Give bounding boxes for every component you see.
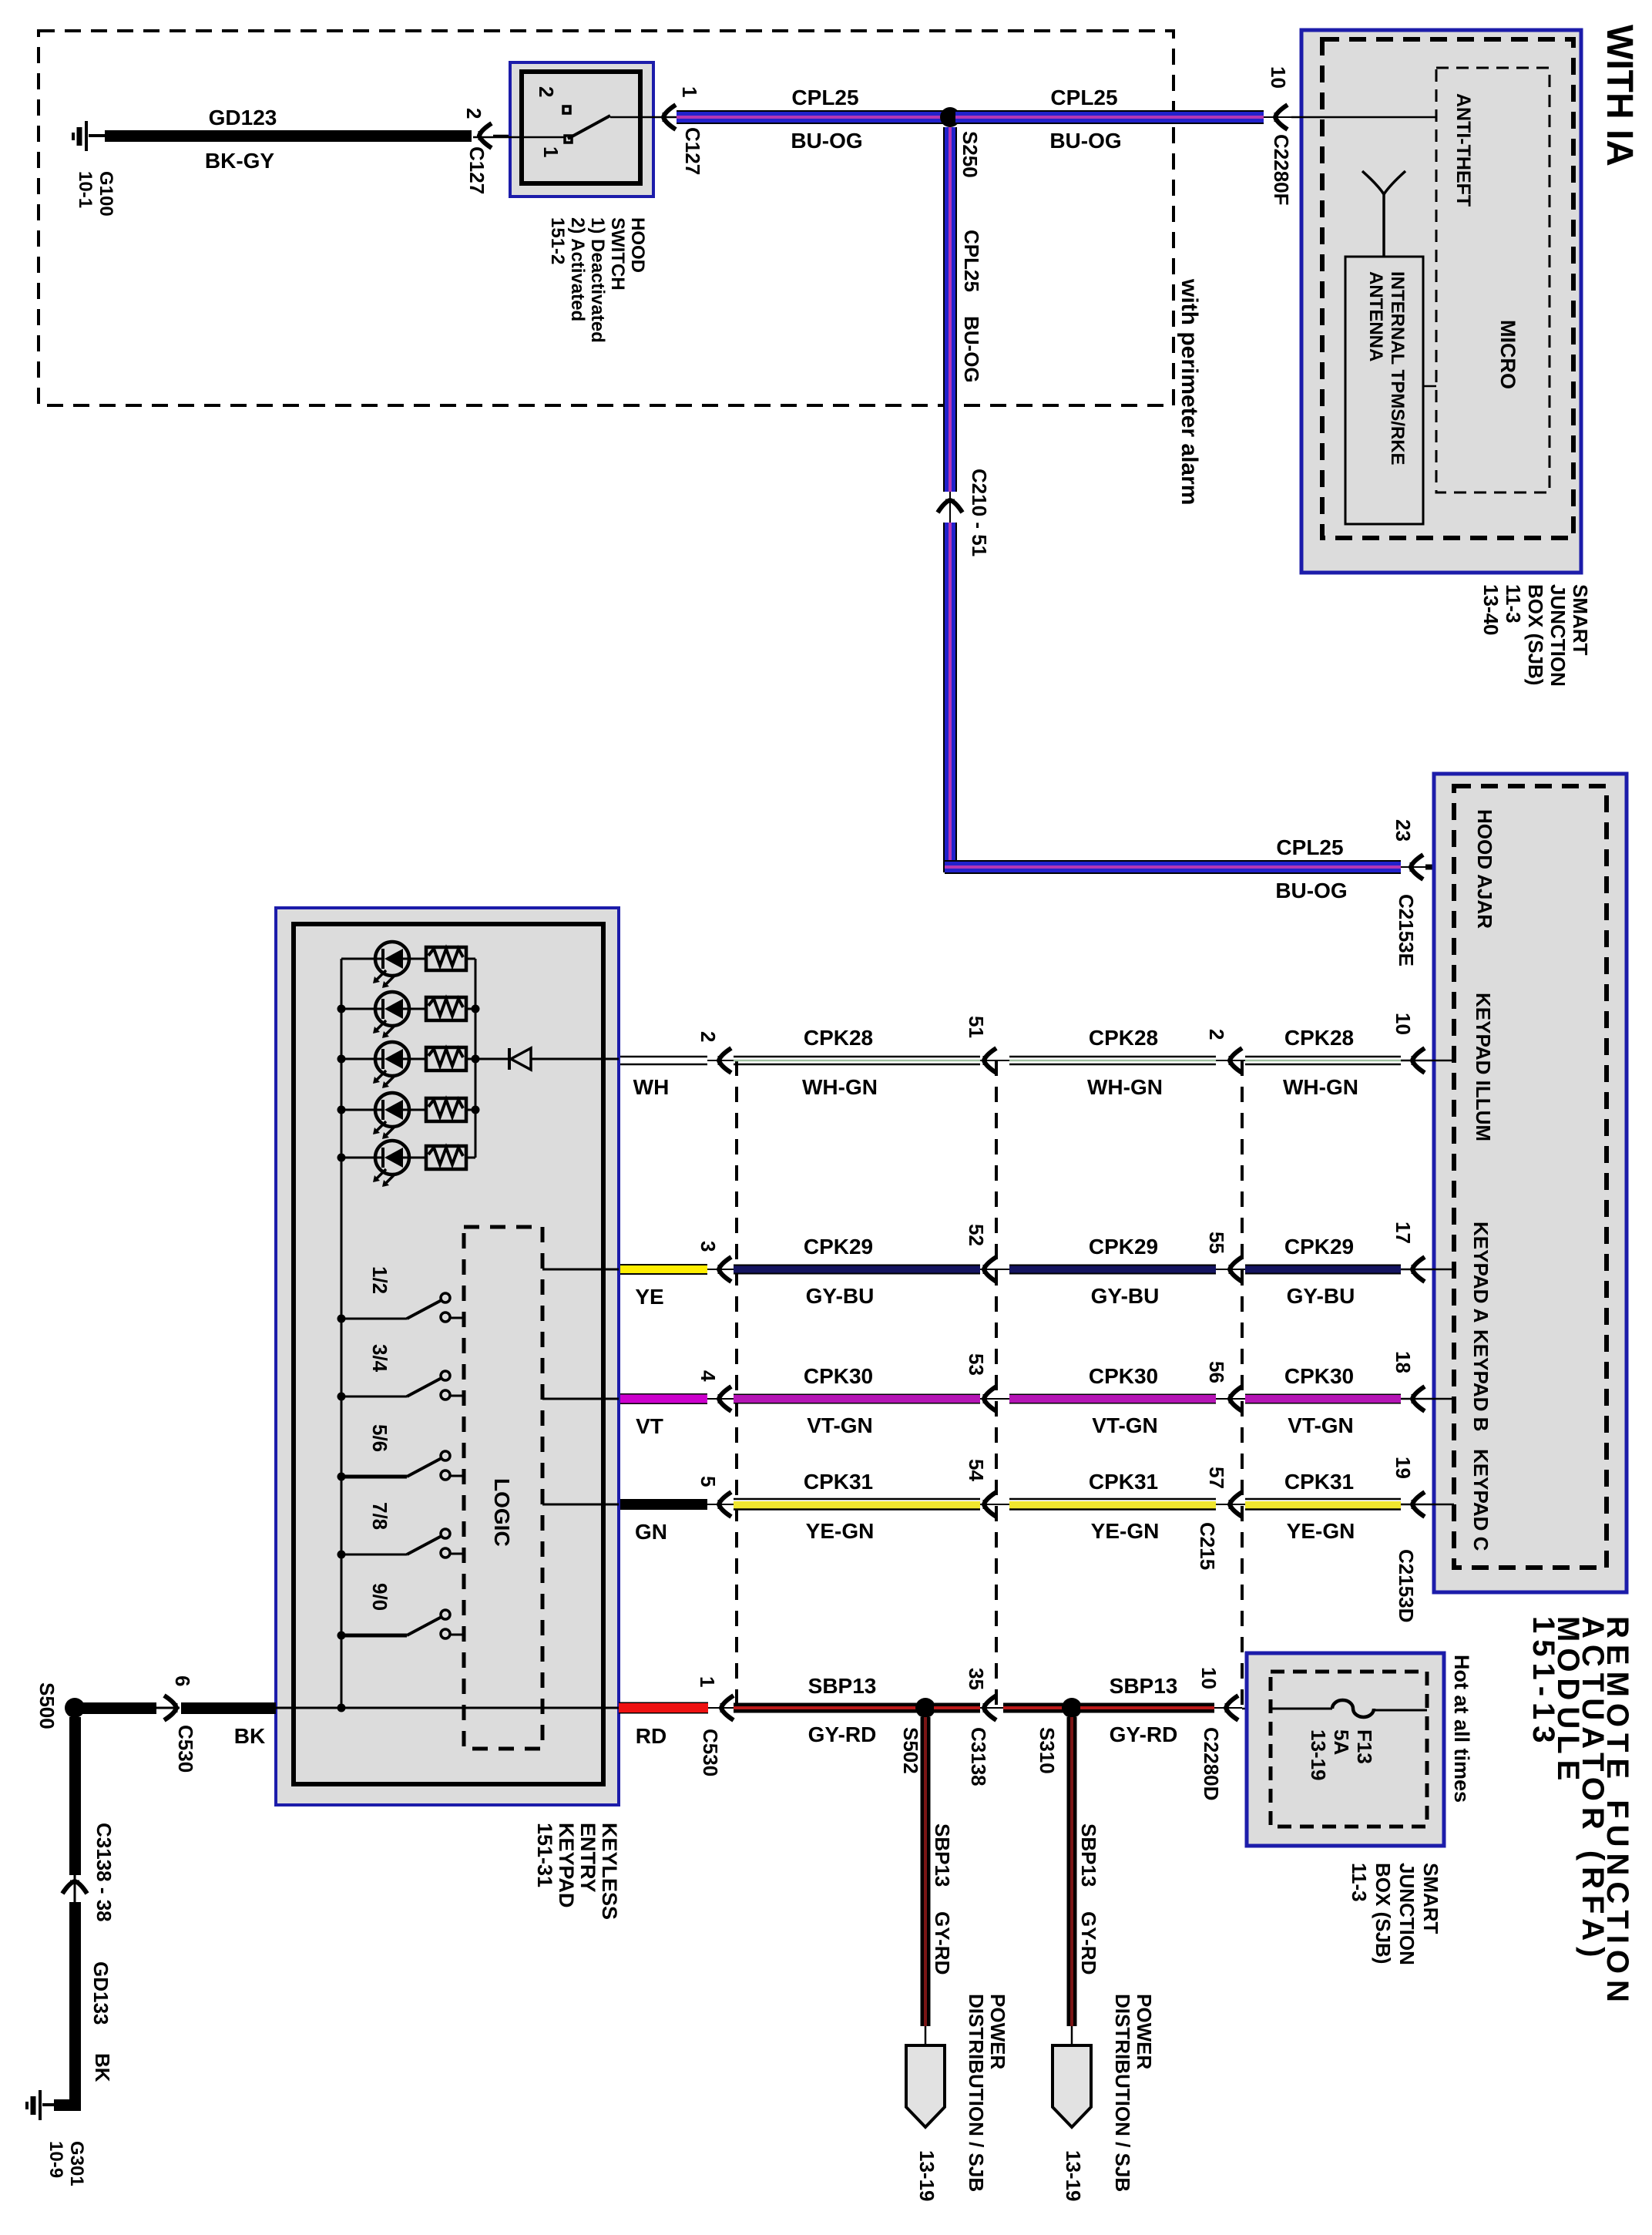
svg-text:GY-RD: GY-RD <box>808 1722 877 1746</box>
svg-text:C3138 - 38: C3138 - 38 <box>92 1823 116 1922</box>
svg-text:54: 54 <box>965 1459 988 1481</box>
wire GD133 BK <box>69 1902 81 2110</box>
svg-text:VT: VT <box>636 1414 663 1438</box>
svg-text:CPK29: CPK29 <box>804 1235 873 1259</box>
svg-text:2) Activated: 2) Activated <box>567 217 588 321</box>
off-page connector POWER DISTRIBUTION / SJB <box>906 2045 945 2127</box>
svg-text:Hot at all times: Hot at all times <box>1450 1655 1473 1803</box>
svg-text:151-31: 151-31 <box>533 1823 556 1887</box>
svg-text:5: 5 <box>697 1476 720 1487</box>
svg-text:BU-OG: BU-OG <box>1049 129 1121 153</box>
svg-text:VT-GN: VT-GN <box>1288 1413 1354 1437</box>
tpms link line <box>1423 385 1436 388</box>
dashed outline: with perimeter alarm region <box>39 31 1174 405</box>
svg-text:ENTRY: ENTRY <box>576 1823 599 1893</box>
svg-text:17: 17 <box>1392 1222 1415 1244</box>
wire WH stub from keypad <box>619 1057 707 1064</box>
svg-text:POWER: POWER <box>1133 1994 1156 2069</box>
connector plane C215/C2153 <box>1241 1060 1244 1708</box>
svg-text:4: 4 <box>697 1370 720 1382</box>
off-page connector POWER DISTRIBUTION / SJB <box>1053 2045 1091 2127</box>
svg-text:LOGIC: LOGIC <box>490 1478 514 1547</box>
svg-text:SBP13: SBP13 <box>931 1823 954 1887</box>
svg-text:HOOD AJAR: HOOD AJAR <box>1473 809 1496 929</box>
LED D2 with resistor R2 <box>341 992 475 1038</box>
wire SBP13 GY-RD segment 2 <box>1003 1703 1063 1713</box>
svg-text:C3138: C3138 <box>967 1727 990 1786</box>
connector C530 pin 4 (CPK30) <box>719 1386 731 1411</box>
connector pin 51 (CPK28) <box>984 1048 996 1073</box>
keypad internal output lines to logic <box>542 1269 619 1271</box>
LED D1 with resistor R1 <box>341 942 475 988</box>
LED right bus <box>475 959 477 1158</box>
LED D3 with resistor R3 <box>341 1042 475 1088</box>
svg-text:KEYLESS: KEYLESS <box>598 1823 621 1920</box>
svg-text:1: 1 <box>678 86 701 97</box>
svg-text:1) Deactivated: 1) Deactivated <box>587 217 608 343</box>
svg-text:GD133: GD133 <box>89 1961 112 2025</box>
svg-text:KEYPAD C: KEYPAD C <box>1469 1449 1493 1551</box>
keypad switch 3/4 <box>341 1371 464 1400</box>
junction on LED left bus <box>337 1154 346 1162</box>
svg-text:GY-BU: GY-BU <box>1091 1284 1160 1308</box>
svg-text:YE-GN: YE-GN <box>1091 1519 1160 1543</box>
svg-text:6: 6 <box>171 1675 194 1686</box>
svg-text:10: 10 <box>1392 1013 1415 1035</box>
svg-text:CPK28: CPK28 <box>1284 1026 1354 1050</box>
keypad switch 1/2 <box>341 1293 464 1322</box>
svg-text:13-19: 13-19 <box>1307 1729 1330 1781</box>
svg-text:VT-GN: VT-GN <box>807 1413 873 1437</box>
micro dashed box <box>1436 68 1550 492</box>
connector C3138 pin 35 <box>984 1696 996 1720</box>
svg-text:BOX (SJB): BOX (SJB) <box>1372 1863 1395 1964</box>
svg-text:BK: BK <box>234 1724 265 1748</box>
wire CPK30 VT-GN segment 1 <box>734 1394 980 1404</box>
svg-text:53: 53 <box>965 1353 988 1376</box>
connector pin 54 (CPK31) <box>984 1492 996 1517</box>
hood switch box <box>510 62 653 197</box>
wire CPK30 VT-GN segment 2 <box>1009 1394 1216 1404</box>
wire SBP13 GY-RD segment 3 <box>1080 1703 1214 1713</box>
svg-text:CPK30: CPK30 <box>1284 1364 1354 1388</box>
svg-text:23: 23 <box>1392 819 1415 842</box>
svg-text:151-2: 151-2 <box>547 217 568 264</box>
svg-text:GN: GN <box>635 1520 667 1544</box>
svg-text:CPL25: CPL25 <box>791 86 858 109</box>
wire CPK29 GY-BU segment 3 <box>1245 1265 1401 1275</box>
svg-text:13-40: 13-40 <box>1479 584 1503 636</box>
connector C530 pin 1 <box>721 1696 734 1720</box>
svg-text:with perimeter alarm: with perimeter alarm <box>1177 278 1202 505</box>
svg-text:18: 18 <box>1392 1351 1415 1373</box>
wire CPK29 GY-BU segment 2 <box>1009 1265 1216 1275</box>
connector C3138 - 38 <box>62 1881 87 1894</box>
LED D5 with resistor R5 <box>341 1141 475 1187</box>
svg-text:JUNCTION: JUNCTION <box>1546 584 1570 687</box>
connector plane C530 <box>735 1060 738 1708</box>
connector C2280D pin 10 <box>1226 1696 1238 1720</box>
svg-text:G100: G100 <box>96 171 116 217</box>
junction on LED right bus <box>472 1106 480 1114</box>
wire VT stub from keypad <box>619 1393 707 1404</box>
svg-text:GY-RD: GY-RD <box>1077 1911 1100 1975</box>
svg-text:VT-GN: VT-GN <box>1092 1413 1158 1437</box>
connector C2280F pin 10 <box>1275 105 1288 129</box>
wire SBP13 GY-RD drop from S502 <box>921 1717 931 2026</box>
wire CPK28 WH-GN segment 3 <box>1245 1057 1401 1064</box>
svg-text:DISTRIBUTION / SJB: DISTRIBUTION / SJB <box>1111 1994 1134 2192</box>
svg-text:2: 2 <box>1205 1029 1228 1040</box>
junction switch bus <box>337 1473 346 1481</box>
fuse F13 5A <box>1271 1700 1427 1717</box>
connector C530 pin 6 <box>164 1696 176 1720</box>
svg-text:10: 10 <box>1267 66 1290 89</box>
svg-text:F13: F13 <box>1353 1729 1376 1764</box>
svg-text:10: 10 <box>1197 1667 1221 1689</box>
connector C210 - 51 <box>938 500 962 513</box>
svg-text:BK: BK <box>91 2053 114 2082</box>
connector pin 55 (CPK29) <box>1230 1257 1242 1282</box>
svg-text:CPK31: CPK31 <box>1089 1470 1158 1494</box>
svg-text:7/8: 7/8 <box>368 1502 391 1530</box>
svg-text:CPK28: CPK28 <box>804 1026 873 1050</box>
svg-text:10-9: 10-9 <box>45 2141 66 2178</box>
svg-text:3: 3 <box>697 1241 720 1252</box>
svg-text:56: 56 <box>1205 1361 1228 1383</box>
svg-text:1/2: 1/2 <box>368 1266 391 1294</box>
svg-text:C2153E: C2153E <box>1395 894 1418 966</box>
wire CPL25 lower horizontal to RFA <box>945 860 1401 874</box>
svg-text:GY-RD: GY-RD <box>931 1911 954 1975</box>
svg-text:13-19: 13-19 <box>1062 2150 1085 2202</box>
junction on LED right bus <box>472 1055 480 1064</box>
svg-text:2: 2 <box>535 86 558 97</box>
wire CPL25 BU-OG segment 1 <box>677 110 945 124</box>
ground G301 <box>27 2090 81 2120</box>
svg-text:GY-RD: GY-RD <box>1110 1722 1178 1746</box>
svg-text:WITH IA: WITH IA <box>1599 25 1640 166</box>
svg-text:11-3: 11-3 <box>1502 584 1525 623</box>
junction on LED left bus <box>337 1005 346 1013</box>
keypad ground line <box>276 1707 619 1709</box>
ground G100 <box>73 121 108 151</box>
svg-text:C210 - 51: C210 - 51 <box>968 469 991 556</box>
wire CPL25 vertical from S250 <box>943 127 957 492</box>
svg-text:CPK28: CPK28 <box>1089 1026 1158 1050</box>
RFA pins 10/17/18/19 stubs and arrows <box>1401 1060 1454 1062</box>
svg-text:BU-OG: BU-OG <box>791 129 862 153</box>
diode D6 (illum output) <box>475 1048 619 1070</box>
svg-text:CPK30: CPK30 <box>1089 1364 1158 1388</box>
svg-text:SBP13: SBP13 <box>1110 1674 1178 1698</box>
splice S502 <box>915 1698 935 1718</box>
connector pin 53 (CPK30) <box>984 1386 996 1411</box>
wire BK vertical from S500 <box>69 1717 81 1875</box>
svg-text:WH-GN: WH-GN <box>1087 1075 1163 1099</box>
LED D4 with resistor R4 <box>341 1093 475 1139</box>
wire GD123 BK-GY <box>105 130 472 142</box>
wire CPK31 YE-GN segment 1 <box>734 1499 980 1510</box>
svg-text:57: 57 <box>1205 1467 1228 1489</box>
svg-text:C2280F: C2280F <box>1270 134 1293 206</box>
svg-text:ANTI-THEFT: ANTI-THEFT <box>1452 93 1474 207</box>
wire CPK28 WH-GN segment 1 <box>734 1057 980 1064</box>
svg-text:CPL25: CPL25 <box>960 230 983 292</box>
junction on LED right bus <box>472 1005 480 1013</box>
remote function actuator (RFA) module box <box>1434 774 1627 1592</box>
svg-text:C127: C127 <box>465 146 489 194</box>
svg-text:1: 1 <box>539 146 562 157</box>
svg-text:SBP13: SBP13 <box>1077 1823 1100 1887</box>
connector pin 52 (CPK29) <box>984 1257 996 1282</box>
svg-text:GY-BU: GY-BU <box>806 1284 875 1308</box>
svg-text:CPK29: CPK29 <box>1284 1235 1354 1259</box>
connector plane C3138 <box>995 1060 998 1708</box>
svg-text:KEYPAD: KEYPAD <box>555 1823 578 1908</box>
junction switch bus <box>337 1632 346 1640</box>
smart junction box (SJB) bottom with fuse F13 <box>1247 1653 1444 1846</box>
svg-text:S500: S500 <box>35 1682 59 1729</box>
junction switch bus <box>337 1315 346 1323</box>
keypad switch 5/6 <box>341 1451 464 1480</box>
connector C127 pin 1 <box>663 105 676 129</box>
wire SBP13 GY-RD drop from S310 <box>1067 1717 1077 2026</box>
svg-text:C530: C530 <box>699 1729 722 1776</box>
connector pin 56 (CPK30) <box>1230 1386 1242 1411</box>
svg-text:9/0: 9/0 <box>368 1583 391 1611</box>
svg-text:POWER: POWER <box>986 1994 1009 2069</box>
svg-text:ANTENNA: ANTENNA <box>1365 271 1386 361</box>
svg-text:INTERNAL TPMS/RKE: INTERNAL TPMS/RKE <box>1387 271 1408 465</box>
svg-text:RD: RD <box>636 1724 667 1748</box>
svg-text:CPK30: CPK30 <box>804 1364 873 1388</box>
svg-text:C2280D: C2280D <box>1200 1727 1223 1800</box>
svg-text:WH-GN: WH-GN <box>1283 1075 1358 1099</box>
svg-text:2: 2 <box>462 108 485 119</box>
svg-text:SWITCH: SWITCH <box>607 217 628 291</box>
connector C530 pin 3 (CPK29) <box>719 1257 731 1282</box>
svg-text:MICRO: MICRO <box>1496 320 1519 389</box>
svg-text:WH-GN: WH-GN <box>802 1075 878 1099</box>
svg-text:C530: C530 <box>174 1725 197 1773</box>
svg-text:BK-GY: BK-GY <box>205 149 275 173</box>
svg-text:DISTRIBUTION / SJB: DISTRIBUTION / SJB <box>965 1994 988 2192</box>
hood switch contacts and blade <box>473 106 678 143</box>
connector C530 pin 2 (CPK28) <box>719 1048 731 1073</box>
svg-text:1: 1 <box>696 1676 719 1687</box>
svg-text:BOX (SJB): BOX (SJB) <box>1524 584 1547 685</box>
wire CPK30 VT-GN segment 3 <box>1245 1394 1401 1404</box>
svg-text:C127: C127 <box>681 127 704 175</box>
splice S250 <box>940 107 960 127</box>
svg-text:19: 19 <box>1392 1457 1415 1479</box>
LED left bus <box>341 959 343 1708</box>
connector C127 pin 2 <box>479 123 492 148</box>
svg-text:35: 35 <box>965 1668 988 1690</box>
connector C530 pin 5 (CPK31) <box>719 1492 731 1517</box>
svg-text:S502: S502 <box>899 1727 922 1774</box>
svg-text:S250: S250 <box>959 131 982 178</box>
wire SBP13 GY-RD segment 1 <box>734 1703 917 1713</box>
svg-text:5/6: 5/6 <box>368 1424 391 1452</box>
svg-text:G301: G301 <box>66 2141 87 2186</box>
svg-text:S310: S310 <box>1036 1727 1059 1774</box>
svg-text:11-3: 11-3 <box>1348 1863 1371 1902</box>
keypad switch 7/8 <box>341 1529 464 1558</box>
svg-text:SMART: SMART <box>1569 584 1592 656</box>
svg-text:CPK31: CPK31 <box>1284 1470 1354 1494</box>
svg-text:GD123: GD123 <box>209 106 277 129</box>
svg-text:YE-GN: YE-GN <box>1287 1519 1355 1543</box>
svg-text:KEYPAD ILLUM: KEYPAD ILLUM <box>1472 993 1495 1141</box>
wire BK from S500 to keypad <box>79 1702 156 1714</box>
svg-text:10-1: 10-1 <box>75 171 96 208</box>
wire CPK31 YE-GN segment 3 <box>1245 1499 1401 1510</box>
wire CPK29 GY-BU segment 1 <box>734 1265 980 1275</box>
svg-text:BU-OG: BU-OG <box>1275 879 1347 902</box>
svg-text:CPK29: CPK29 <box>1089 1235 1158 1259</box>
keypad switch 9/0 <box>341 1610 464 1638</box>
svg-text:SMART: SMART <box>1419 1863 1442 1934</box>
svg-text:55: 55 <box>1205 1232 1228 1254</box>
svg-text:CPL25: CPL25 <box>1276 835 1343 859</box>
wire CPK31 YE-GN segment 2 <box>1009 1499 1216 1510</box>
svg-text:51: 51 <box>965 1016 988 1038</box>
svg-text:52: 52 <box>965 1224 988 1246</box>
svg-text:JUNCTION: JUNCTION <box>1395 1863 1419 1965</box>
svg-text:HOOD: HOOD <box>627 217 648 273</box>
connector C2153E pin 23 <box>1411 855 1423 879</box>
LOGIC dashed box <box>464 1227 542 1749</box>
svg-text:3/4: 3/4 <box>368 1344 391 1373</box>
svg-text:151-13: 151-13 <box>1526 1616 1560 1749</box>
svg-text:SBP13: SBP13 <box>808 1674 877 1698</box>
svg-text:KEYPAD B: KEYPAD B <box>1469 1329 1493 1431</box>
wire CPL25 BU-OG segment 2 <box>955 110 1264 124</box>
junction on LED left bus <box>337 1055 346 1064</box>
wire GN stub from keypad <box>619 1499 707 1510</box>
svg-text:YE-GN: YE-GN <box>806 1519 875 1543</box>
svg-text:C2153D: C2153D <box>1395 1549 1418 1622</box>
svg-text:5A: 5A <box>1330 1729 1353 1755</box>
svg-text:GY-BU: GY-BU <box>1287 1284 1355 1308</box>
wire RD stub from keypad <box>619 1702 708 1714</box>
svg-text:2: 2 <box>697 1031 720 1042</box>
keyless entry keypad box <box>276 908 619 1805</box>
svg-text:BU-OG: BU-OG <box>960 316 983 383</box>
junction on LED left bus <box>337 1106 346 1114</box>
internal TPMS/RKE antenna box <box>1345 257 1423 524</box>
wire CPK28 WH-GN segment 2 <box>1009 1057 1216 1064</box>
wire YE stub from keypad <box>619 1264 707 1275</box>
svg-text:CPK31: CPK31 <box>804 1470 873 1494</box>
svg-text:13-19: 13-19 <box>915 2150 938 2202</box>
svg-text:CPL25: CPL25 <box>1050 86 1117 109</box>
junction switch bus <box>337 1551 346 1559</box>
connector pin 2 (CPK28 C2153) <box>1230 1048 1242 1073</box>
antenna symbol <box>1362 171 1405 257</box>
svg-text:WH: WH <box>633 1075 670 1099</box>
splice S500 <box>65 1698 85 1718</box>
smart junction box (SJB) top <box>1301 30 1581 573</box>
svg-text:YE: YE <box>635 1285 663 1309</box>
junction switch bus <box>337 1393 346 1401</box>
svg-text:C215: C215 <box>1196 1522 1219 1570</box>
connector C215 pin 57 (CPK31) <box>1230 1492 1242 1517</box>
svg-text:KEYPAD A: KEYPAD A <box>1469 1222 1493 1323</box>
splice S310 <box>1062 1698 1082 1718</box>
anti-theft line <box>1291 116 1436 119</box>
